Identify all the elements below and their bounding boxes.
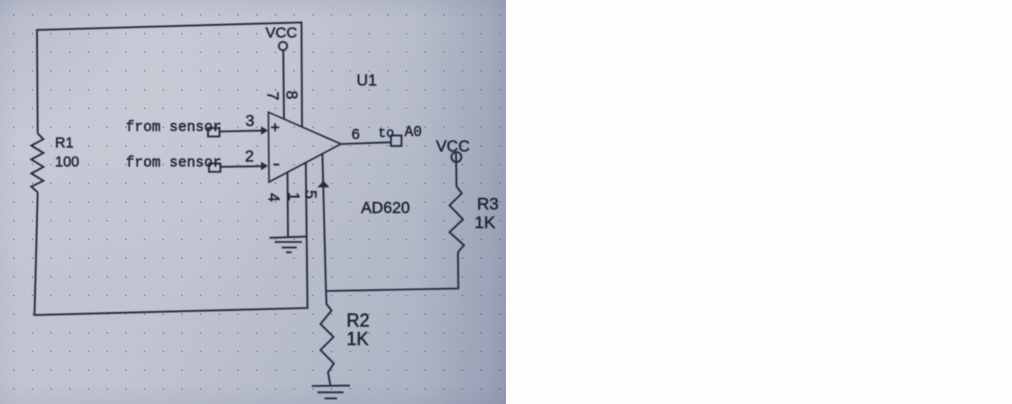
svg-text:AD620: AD620 [361,200,410,217]
svg-text:R1: R1 [55,136,74,152]
svg-text:100: 100 [55,155,79,171]
svg-text:1K: 1K [475,213,496,232]
svg-text:R2: R2 [347,311,370,331]
svg-text:3: 3 [246,113,255,130]
svg-text:from sensor: from sensor [126,156,222,172]
svg-text:7: 7 [264,92,281,101]
svg-text:2: 2 [245,149,254,166]
svg-text:U1: U1 [357,73,378,90]
svg-text:from sensor: from sensor [126,120,222,136]
svg-text:8: 8 [283,91,300,100]
svg-text:R3: R3 [477,195,499,214]
svg-text:A0: A0 [405,125,422,141]
svg-text:VCC: VCC [266,25,298,42]
svg-text:4: 4 [265,193,282,202]
svg-text:5: 5 [302,190,319,199]
svg-text:1K: 1K [347,329,369,349]
svg-text:VCC: VCC [436,139,470,156]
svg-text:6: 6 [352,126,360,143]
svg-text:to: to [378,127,394,142]
svg-text:1: 1 [285,192,302,201]
